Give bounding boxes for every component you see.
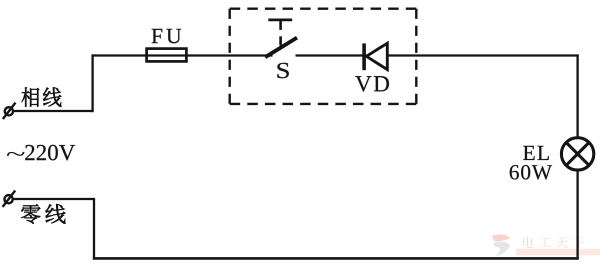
label ~220V supply — [7, 145, 75, 161]
wire: right drop to lamp — [576, 54, 578, 140]
terminal: neutral input (circle with slash) — [3, 191, 16, 207]
watermark: faint site logo and text — [492, 234, 600, 256]
wire: top line, switch to lamp corner — [296, 54, 579, 56]
diode VD: cathode bar — [362, 43, 366, 70]
lamp EL: circle with cross — [561, 138, 593, 170]
label S — [277, 63, 288, 78]
dashed enclosure: switch and diode unit — [230, 9, 417, 104]
label 60W — [510, 165, 552, 180]
wire: neutral terminal to riser — [12, 198, 95, 200]
wire: neutral riser — [93, 199, 95, 260]
wire: lamp to bottom line — [576, 168, 578, 260]
fuse FU — [147, 49, 187, 62]
switch S: blade — [265, 38, 297, 58]
switch S: link tick — [279, 36, 282, 45]
label 零线 (neutral line) — [21, 204, 65, 224]
label EL — [523, 146, 549, 160]
label VD — [355, 76, 389, 91]
terminal: phase input (circle with slash) — [3, 103, 16, 119]
label 相线 (phase line) — [22, 87, 62, 107]
wire: riser up to top line — [91, 54, 93, 112]
wire: phase terminal to riser corner — [13, 110, 93, 112]
switch S: fixed contact T-bar — [268, 19, 292, 30]
diode VD: triangle — [366, 43, 387, 69]
wire: bottom return line — [93, 257, 579, 260]
label FU — [152, 29, 182, 43]
wire: top line, riser to switch — [92, 54, 273, 56]
